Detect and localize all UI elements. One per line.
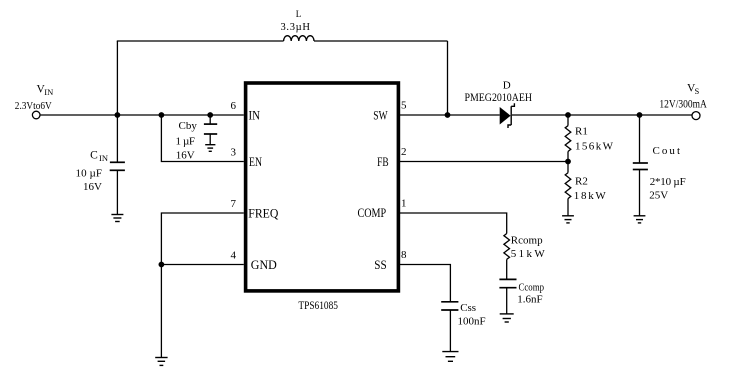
- terminal VIN: [32, 111, 40, 119]
- wire: Cby stem from VIN node: [209, 115, 211, 124]
- ground (CIN): [111, 215, 123, 222]
- svg-text:L: L: [296, 9, 302, 19]
- svg-text:1.6nF: 1.6nF: [517, 294, 542, 306]
- ground (Ccomp): [500, 314, 514, 322]
- wire: Cout stem: [639, 115, 641, 163]
- capacitor Css: [441, 302, 458, 310]
- svg-text:FB: FB: [377, 154, 389, 169]
- svg-text:R1: R1: [575, 125, 588, 137]
- junction node VIN/CIN: [115, 112, 121, 118]
- diode D PMEG2010AEH: [500, 103, 515, 128]
- capacitor Ccomp: [499, 279, 516, 287]
- svg-text:Ccomp: Ccomp: [519, 282, 545, 294]
- resistor Rcomp: [504, 234, 510, 280]
- wire: VIN input horizontal (node VIN to IC pin IN): [40, 114, 244, 116]
- svg-text:25V: 25V: [649, 190, 668, 202]
- svg-text:R2: R2: [575, 175, 588, 187]
- ground (Css): [442, 352, 458, 362]
- svg-text:4: 4: [231, 250, 237, 262]
- svg-text:100nF: 100nF: [458, 316, 486, 328]
- ground (Cby): [205, 145, 215, 152]
- wire: SW pin to diode anode: [400, 114, 500, 116]
- wire: FB pin horizontal: [400, 161, 568, 163]
- svg-text:EN: EN: [249, 154, 262, 169]
- junction node Cby tap: [207, 112, 213, 118]
- svg-text:Cby: Cby: [179, 120, 198, 132]
- wire: Css to ground: [449, 310, 451, 352]
- svg-text:Css: Css: [460, 302, 476, 314]
- wire: top rail left segment to inductor: [117, 40, 284, 42]
- wire: CIN stem from VIN node: [116, 115, 118, 162]
- svg-text:51kW: 51kW: [511, 248, 546, 260]
- wire: Cout to ground: [639, 170, 641, 216]
- svg-text:7: 7: [231, 198, 237, 210]
- svg-text:2: 2: [401, 146, 407, 158]
- svg-text:IN: IN: [44, 87, 53, 97]
- junction node SW: [445, 112, 451, 118]
- svg-text:5: 5: [401, 99, 407, 111]
- wire: FREQ pin horizontal: [161, 213, 243, 265]
- svg-text:SW: SW: [373, 107, 388, 122]
- wire: Cby to ground: [209, 134, 211, 145]
- svg-text:C: C: [90, 150, 98, 162]
- svg-text:3: 3: [231, 147, 237, 159]
- svg-text:2.3Vto6V: 2.3Vto6V: [15, 100, 52, 112]
- capacitor CIN: [110, 162, 125, 170]
- wire: GND pin horizontal: [161, 264, 243, 266]
- wire: riser from VIN node up to top rail: [116, 41, 118, 115]
- svg-text:16V: 16V: [83, 181, 102, 193]
- svg-text:TPS61085: TPS61085: [298, 300, 338, 312]
- ground (Cout): [634, 216, 646, 223]
- diode D cathode wire to output: [512, 114, 692, 116]
- wire: CIN to ground: [116, 170, 118, 214]
- svg-text:12V/300mA: 12V/300mA: [659, 97, 707, 111]
- svg-text:FREQ: FREQ: [248, 206, 279, 221]
- junction node VOUT/R1: [565, 112, 571, 118]
- resistor R2: [565, 162, 571, 216]
- svg-text:18kW: 18kW: [574, 190, 607, 202]
- inductor L: [284, 36, 314, 41]
- svg-text:16V: 16V: [176, 150, 195, 162]
- svg-text:S: S: [695, 86, 700, 96]
- svg-text:3.3µH: 3.3µH: [281, 22, 311, 33]
- terminal VS: [692, 112, 700, 120]
- capacitor Cout: [633, 163, 648, 170]
- svg-text:8: 8: [401, 249, 407, 261]
- svg-text:2*10 µF: 2*10 µF: [650, 176, 686, 188]
- svg-text:156kW: 156kW: [575, 141, 614, 153]
- svg-text:D: D: [503, 80, 511, 92]
- svg-text:6: 6: [231, 100, 237, 112]
- wire: SS pin to Css: [400, 265, 450, 302]
- resistor R1: [565, 115, 571, 162]
- junction node GND: [159, 262, 165, 268]
- junction node EN tap: [159, 112, 165, 118]
- wire: top rail right segment from inductor: [314, 40, 448, 42]
- svg-text:IN: IN: [99, 153, 108, 163]
- svg-text:COMP: COMP: [358, 205, 387, 220]
- ground (GND pin): [155, 358, 167, 366]
- wire: COMP pin to Rcomp: [400, 213, 507, 234]
- svg-text:Rcomp: Rcomp: [511, 235, 543, 247]
- svg-text:Cout: Cout: [653, 145, 681, 157]
- svg-text:GND: GND: [251, 257, 277, 272]
- svg-text:IN: IN: [249, 107, 261, 122]
- svg-text:10 µF: 10 µF: [76, 168, 103, 180]
- IC U1 TPS61085 body: [246, 83, 399, 291]
- svg-text:PMEG2010AEH: PMEG2010AEH: [465, 92, 533, 104]
- capacitor Cby: [204, 124, 217, 134]
- ground (R2): [562, 216, 574, 223]
- svg-text:1 µF: 1 µF: [176, 136, 196, 148]
- svg-text:SS: SS: [374, 257, 386, 272]
- junction node FB: [565, 159, 571, 165]
- svg-text:1: 1: [401, 197, 407, 209]
- wire: GND node down to ground: [160, 265, 162, 358]
- wire: EN riser from VIN node: [161, 115, 243, 162]
- wire: Ccomp to ground: [506, 288, 508, 314]
- junction node Cout tap: [637, 112, 643, 118]
- wire: drop from top rail to SW node: [447, 41, 449, 115]
